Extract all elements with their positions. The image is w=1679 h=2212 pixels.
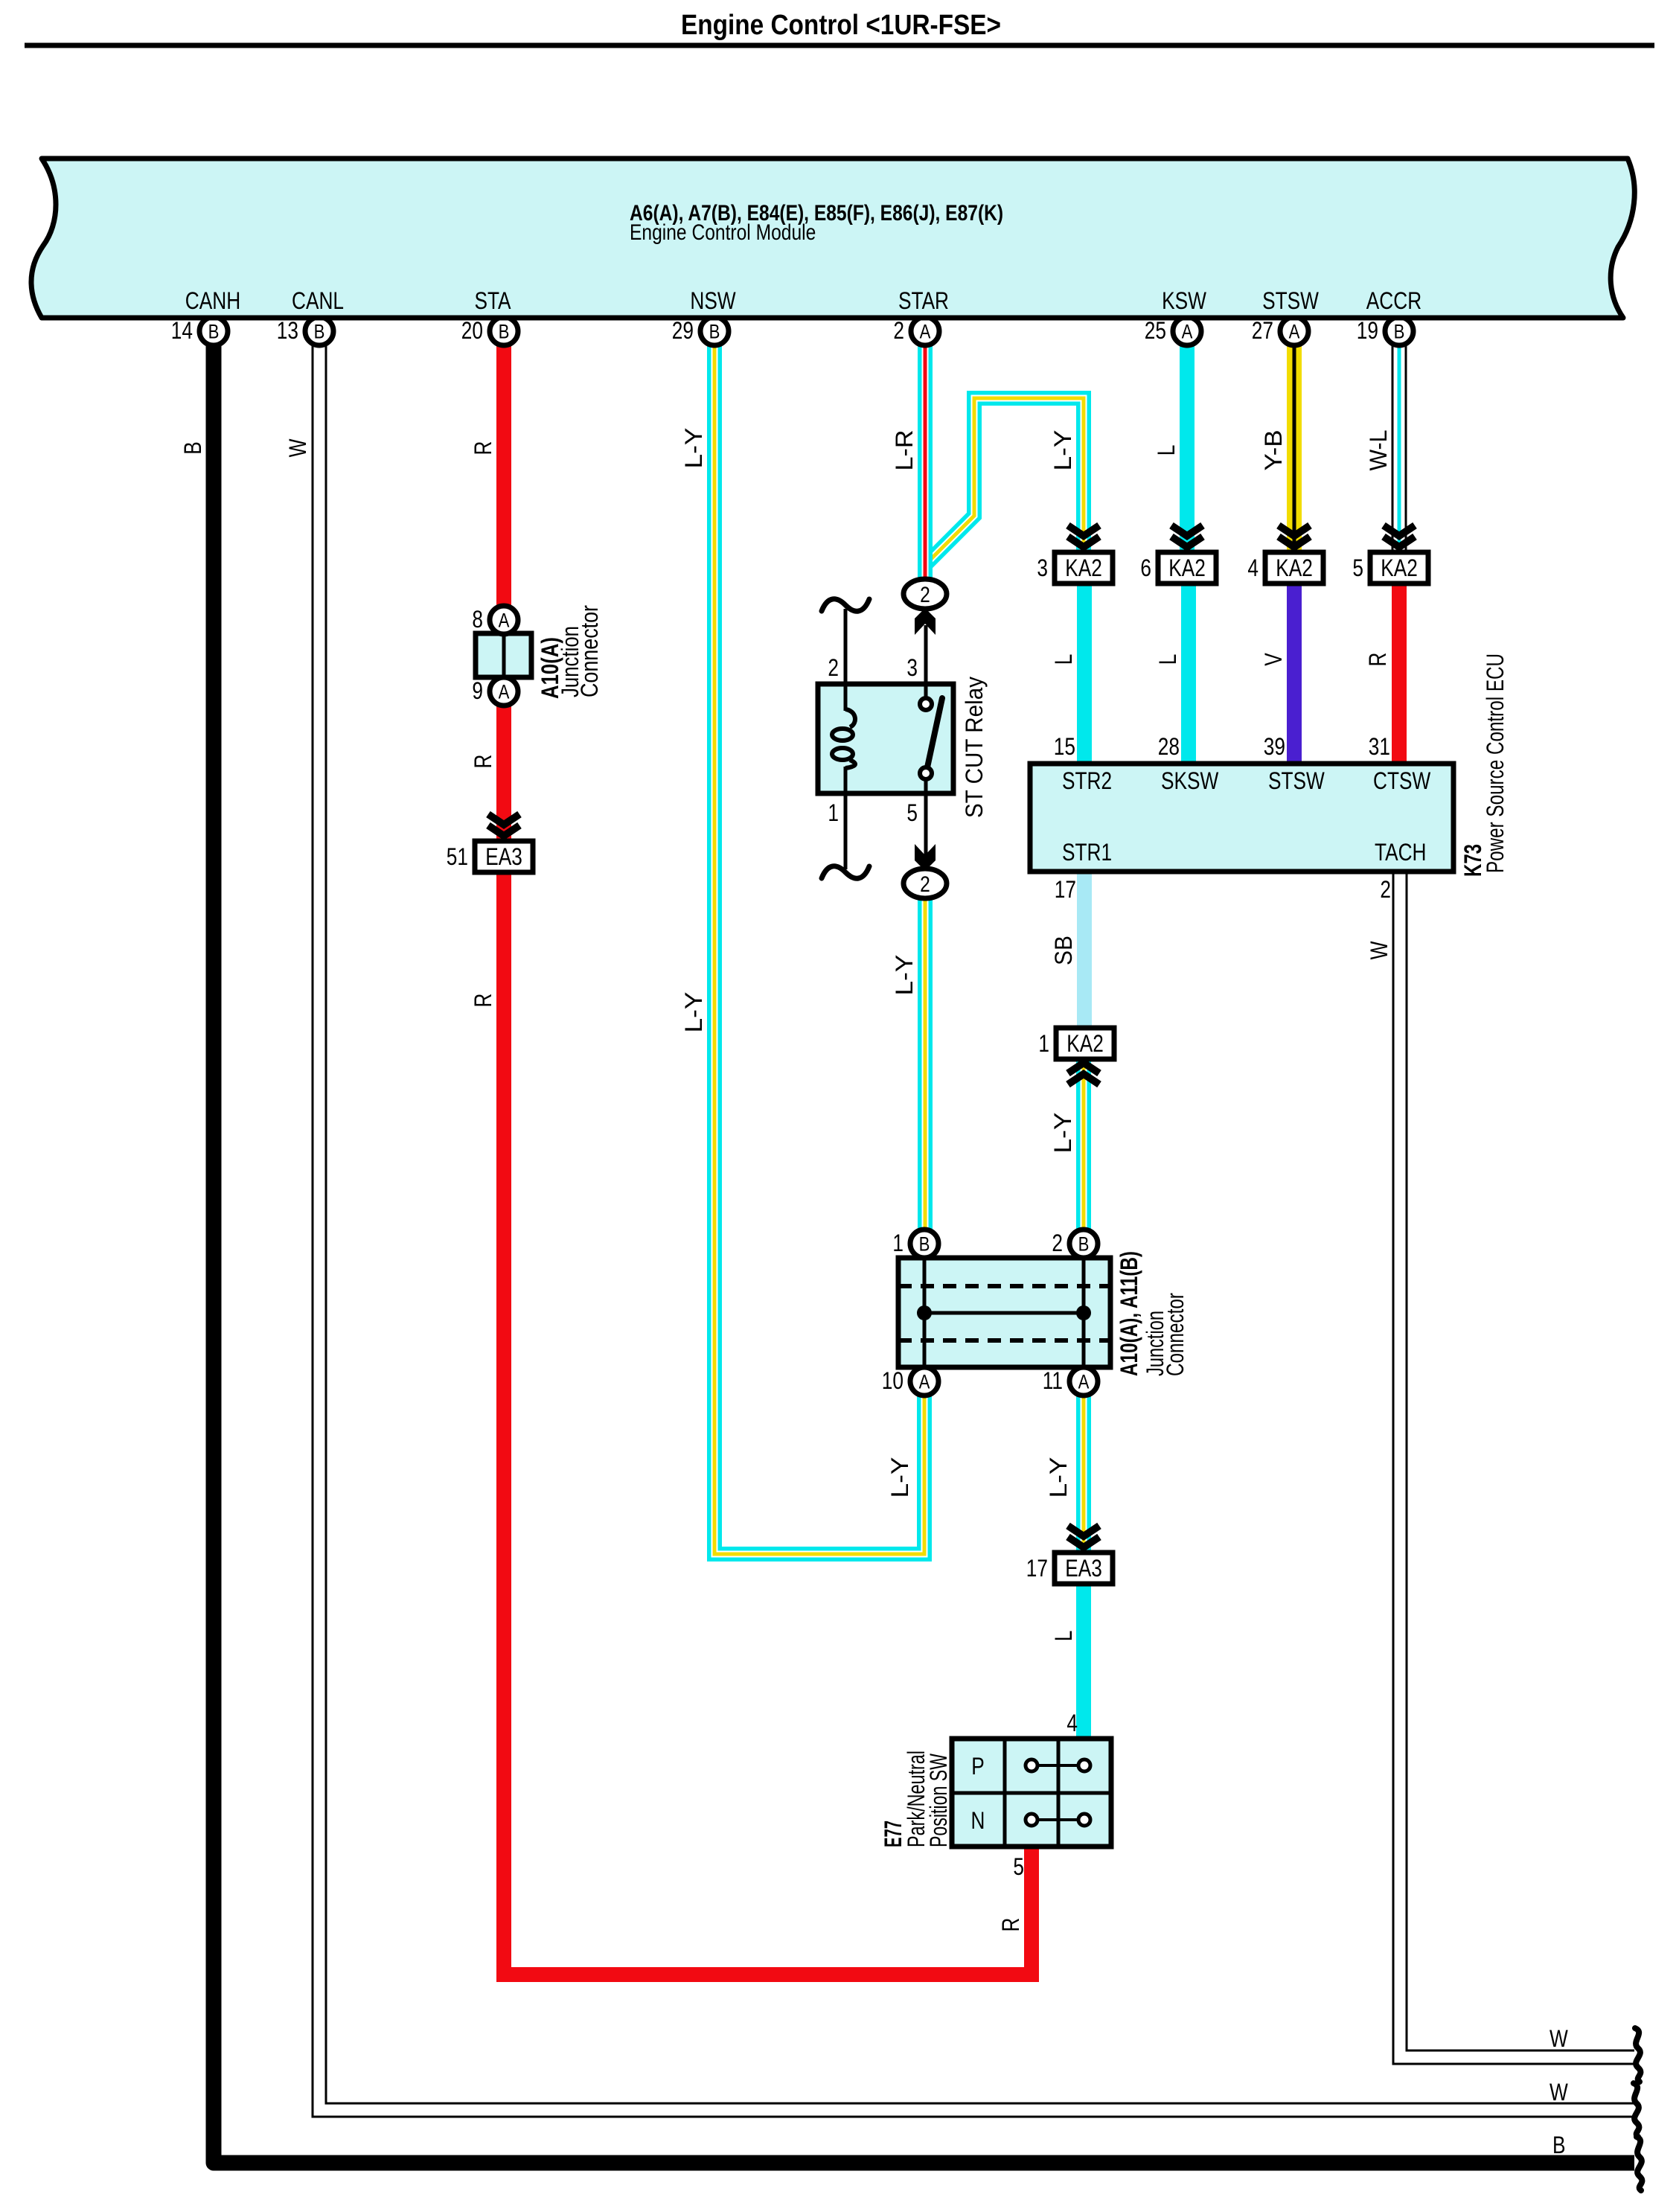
wire from relay pin 3 up to node 2 (924, 625, 928, 704)
junction connector A10(A), A11(B) box (898, 1258, 1110, 1367)
relay switch arm (927, 698, 942, 767)
tilde squiggle below relay coil (822, 866, 869, 878)
svg-text:5: 5 (906, 799, 918, 826)
svg-text:5: 5 (1352, 554, 1363, 581)
svg-text:2: 2 (920, 583, 930, 607)
title rule (25, 43, 1654, 48)
svg-text:SB: SB (1050, 936, 1077, 965)
svg-text:ACCR: ACCR (1366, 287, 1421, 314)
svg-text:KSW: KSW (1162, 287, 1206, 314)
svg-text:4: 4 (1247, 554, 1259, 581)
svg-text:Y-B: Y-B (1260, 430, 1287, 471)
svg-text:KA2: KA2 (1066, 1030, 1104, 1057)
svg-text:19: 19 (1357, 317, 1378, 344)
svg-text:25: 25 (1145, 317, 1166, 344)
node 2 above relay (904, 579, 947, 609)
chevrons into 6 KA2 (1171, 525, 1203, 547)
svg-text:W: W (1550, 2025, 1568, 2052)
svg-text:28: 28 (1158, 733, 1180, 760)
P row contact (1032, 1764, 1084, 1767)
svg-text:8: 8 (472, 606, 483, 633)
svg-text:STR2: STR2 (1062, 767, 1112, 794)
svg-text:CANH: CANH (185, 287, 240, 314)
svg-text:L: L (1154, 654, 1181, 665)
svg-text:STAR: STAR (898, 287, 949, 314)
connector 6 KA2 (1140, 552, 1216, 584)
wire branch L-Y from STAR wire to connector 3 KA2 (924, 398, 1084, 566)
wire CANL W (white) from ECM pin 13 to bottom right (319, 344, 1635, 2110)
svg-text:51: 51 (447, 843, 468, 870)
wire relay coil feed upper (844, 609, 848, 711)
wire ACCR W-L from ECM pin 19 to connector 5 KA2 (1392, 344, 1407, 554)
ECM Engine Control Module box A6/A7/E84/E85/E86/E87 (31, 159, 1634, 318)
svg-text:20: 20 (461, 317, 483, 344)
connector 51 EA3 (447, 841, 533, 872)
chevrons into 17 EA3 (1068, 1526, 1099, 1547)
chevrons into 4 KA2 (1279, 525, 1310, 547)
svg-text:W-L: W-L (1365, 430, 1392, 471)
svg-text:A: A (1182, 321, 1193, 343)
junction pin 9 A (472, 677, 518, 706)
wire pin1 feed inside relay (844, 767, 848, 793)
junction pin 11 A (1043, 1367, 1098, 1396)
svg-text:9: 9 (472, 677, 483, 704)
svg-text:L: L (1050, 1631, 1077, 1642)
svg-text:17: 17 (1026, 1555, 1048, 1582)
wire relay coil feed lower (844, 767, 848, 869)
wire STSW Y-B from ECM pin 27 to connector 4 KA2 (1287, 345, 1302, 554)
svg-text:2: 2 (1052, 1230, 1063, 1256)
ECM pin 20 B (STA) (461, 317, 518, 345)
connector 1 KA2 (1038, 1028, 1114, 1059)
K73 Power Source Control ECU box (1030, 764, 1453, 872)
svg-text:29: 29 (672, 317, 694, 344)
svg-text:W: W (1550, 2079, 1568, 2106)
junction pin 8 A (472, 606, 518, 634)
relay coil (832, 709, 855, 768)
svg-text:ST CUT Relay: ST CUT Relay (961, 677, 988, 818)
svg-text:EA3: EA3 (485, 843, 522, 870)
bus bar between pins (924, 1311, 1084, 1315)
connector 5 KA2 (1352, 552, 1428, 584)
wire W from ECU TACH pin 2 to bottom right (1400, 870, 1635, 2057)
svg-text:CANL: CANL (292, 287, 344, 314)
wire STA R (red) from ECM pin 20 down to Park/Neutral SW pin 5 (504, 345, 1032, 1975)
svg-text:B: B (499, 321, 510, 343)
svg-text:3: 3 (1037, 554, 1048, 581)
wire L from 17 EA3 down to Park/Neutral SW pin 4 (1076, 1582, 1091, 1739)
svg-text:1: 1 (1038, 1030, 1049, 1057)
svg-text:R: R (470, 441, 496, 455)
svg-text:B: B (709, 321, 720, 343)
wire KSW L (cyan) from ECM pin 25 to connector 6 KA2 (1180, 345, 1195, 554)
ECM pin 13 B (CANL) (277, 317, 333, 345)
wire CANH B (black) from ECM pin 14 to bottom right (214, 345, 1634, 2163)
svg-text:W: W (1366, 941, 1392, 959)
svg-text:A: A (1078, 1371, 1090, 1393)
relay switch contact upper (pin 3) (920, 698, 932, 710)
svg-text:1: 1 (828, 799, 839, 826)
wire R from 5 KA2 to ECU CTSW pin 31 (1392, 584, 1407, 764)
wire NSW L-Y from ECM pin 29 to junction connector pin 10 (714, 345, 924, 1554)
svg-text:10: 10 (882, 1367, 904, 1394)
svg-text:Connector: Connector (576, 605, 603, 697)
relay switch contact lower (pin 5) (920, 767, 932, 779)
svg-text:B: B (1552, 2132, 1566, 2158)
svg-text:KA2: KA2 (1168, 554, 1206, 581)
svg-text:2: 2 (893, 317, 904, 344)
chevrons into 51 EA3 (488, 814, 519, 836)
svg-text:1: 1 (892, 1230, 904, 1256)
svg-text:Engine Control Module: Engine Control Module (630, 220, 816, 245)
squiggle end of CANL W wire (1634, 2083, 1639, 2137)
wire R from STA through A10(A) and 51 EA3 (behind) (496, 706, 511, 845)
svg-text:39: 39 (1264, 733, 1285, 760)
svg-text:SKSW: SKSW (1161, 767, 1219, 794)
svg-text:A: A (919, 1371, 930, 1393)
svg-text:R: R (1364, 653, 1391, 667)
svg-text:B: B (179, 441, 206, 455)
svg-text:B: B (1078, 1233, 1090, 1256)
svg-text:B: B (1394, 321, 1405, 343)
svg-text:W: W (284, 438, 311, 457)
svg-text:A: A (920, 321, 931, 343)
svg-text:L: L (1050, 654, 1077, 665)
connector 17 EA3 (1026, 1553, 1113, 1584)
svg-text:Position SW: Position SW (925, 1753, 952, 1847)
svg-text:R: R (997, 1918, 1024, 1932)
wire SB from ECU STR1 pin 17 to connector 1 KA2 (1077, 872, 1092, 1028)
junction pin 1 B (892, 1230, 938, 1258)
junction pin 2 B (1052, 1230, 1098, 1258)
wire L-Y from relay node 2 down to junction connector pin 1 (918, 898, 933, 1232)
svg-text:EA3: EA3 (1065, 1555, 1102, 1582)
svg-text:KA2: KA2 (1381, 554, 1418, 581)
svg-text:L-Y: L-Y (891, 955, 918, 996)
svg-text:STR1: STR1 (1062, 839, 1112, 866)
wire L from 3 KA2 to ECU STR2 pin 15 (1077, 584, 1092, 764)
svg-text:L-Y: L-Y (886, 1457, 913, 1498)
svg-text:L-Y: L-Y (680, 992, 707, 1033)
svg-text:L-Y: L-Y (1045, 1457, 1072, 1498)
svg-text:27: 27 (1252, 317, 1273, 344)
node 2 below relay (904, 869, 947, 898)
svg-text:17: 17 (1055, 876, 1076, 903)
svg-text:STSW: STSW (1262, 287, 1319, 314)
wire from relay pin 5 down to node 2 (924, 779, 928, 856)
svg-text:3: 3 (906, 654, 918, 681)
svg-text:CTSW: CTSW (1373, 767, 1431, 794)
ECM pin 19 B (ACCR) (1357, 317, 1413, 345)
ST CUT relay box (818, 684, 953, 793)
svg-text:14: 14 (171, 317, 193, 344)
solid arrow up into node 2 (915, 608, 936, 635)
wire STAR L-R from ECM pin 2 down to node 2 (918, 345, 933, 581)
svg-text:B: B (208, 321, 220, 343)
svg-text:2: 2 (920, 872, 930, 897)
svg-text:Engine Control <1UR-FSE>: Engine Control <1UR-FSE> (681, 10, 1001, 41)
connector 3 KA2 (1037, 552, 1113, 584)
svg-text:A10(A), A11(B): A10(A), A11(B) (1116, 1251, 1142, 1376)
tilde squiggle above relay coil (822, 599, 869, 611)
ECM pin 14 B (CANH) (171, 317, 228, 345)
N row contact (1032, 1818, 1084, 1821)
svg-text:R: R (470, 994, 496, 1008)
junction connector A10(A) on STA wire (476, 633, 531, 677)
svg-text:P: P (971, 1753, 985, 1780)
svg-text:L: L (1153, 445, 1180, 456)
solid arrow down into lower node 2 (915, 844, 936, 871)
svg-text:STA: STA (474, 287, 511, 314)
svg-text:V: V (1260, 653, 1287, 666)
svg-text:13: 13 (277, 317, 298, 344)
svg-text:11: 11 (1043, 1367, 1063, 1394)
svg-text:NSW: NSW (690, 287, 736, 314)
svg-text:STSW: STSW (1268, 767, 1325, 794)
ECM pin 25 A (KSW) (1145, 317, 1201, 345)
svg-text:R: R (470, 755, 496, 769)
junction pin 10 A (882, 1367, 938, 1396)
svg-text:L-Y: L-Y (1049, 1113, 1076, 1154)
svg-text:B: B (919, 1233, 930, 1256)
chevrons into 3 KA2 (1068, 525, 1099, 547)
wire L-Y from connector 1 KA2 down to junction connector pin 2 (1076, 1059, 1091, 1232)
svg-text:N: N (971, 1807, 985, 1834)
E77 Park/Neutral Position SW box (952, 1739, 1111, 1847)
svg-text:31: 31 (1369, 733, 1390, 760)
svg-text:4: 4 (1066, 1710, 1078, 1736)
svg-text:L-R: L-R (891, 430, 918, 471)
svg-text:Connector: Connector (1162, 1293, 1189, 1376)
svg-text:A: A (499, 681, 510, 703)
wire L from 6 KA2 to ECU SKSW pin 28 (1181, 584, 1196, 764)
ECM pin 29 B (NSW) (672, 317, 729, 345)
chevrons out of 1 KA2 (1068, 1063, 1099, 1084)
chevrons into 5 KA2 (1384, 525, 1415, 547)
ECM pin 2 A (STAR) (893, 317, 939, 345)
svg-text:6: 6 (1140, 554, 1151, 581)
svg-text:TACH: TACH (1375, 839, 1427, 866)
ECM pin 27 A (STSW) (1252, 317, 1308, 345)
svg-text:A: A (1289, 321, 1300, 343)
svg-text:KA2: KA2 (1276, 554, 1313, 581)
squiggle end of CANH B wire (1637, 2137, 1642, 2190)
svg-text:L-Y: L-Y (680, 428, 707, 469)
svg-text:B: B (314, 321, 325, 343)
svg-text:Power Source Control ECU: Power Source Control ECU (1482, 653, 1509, 873)
svg-text:L-Y: L-Y (1049, 430, 1076, 471)
svg-text:2: 2 (1380, 876, 1391, 903)
connector 4 KA2 (1247, 552, 1323, 584)
svg-text:5: 5 (1013, 1853, 1024, 1880)
squiggle end of TACH W wire (1635, 2028, 1640, 2082)
wire L-Y from junction connector pin 11 down to connector 17 EA3 (1076, 1396, 1091, 1556)
svg-text:KA2: KA2 (1065, 554, 1102, 581)
svg-text:A: A (499, 610, 510, 632)
wire pin2 feed inside relay (844, 684, 848, 711)
wire V from 4 KA2 to ECU STSW pin 39 (1287, 584, 1302, 764)
wire pin3 feed inside relay (924, 684, 928, 704)
svg-text:15: 15 (1054, 733, 1075, 760)
svg-text:2: 2 (828, 654, 839, 681)
